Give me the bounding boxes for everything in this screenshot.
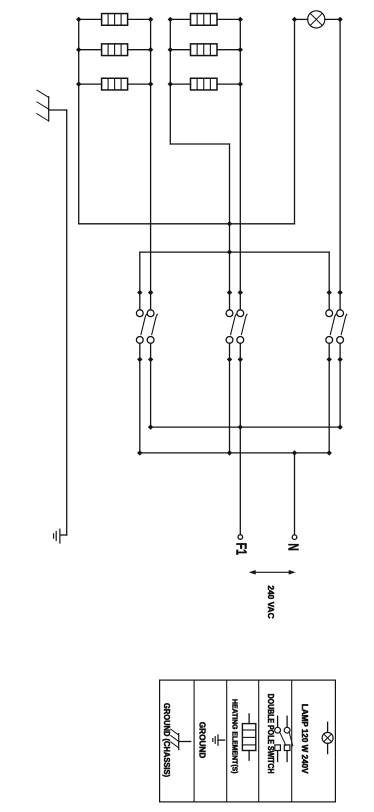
wire: neutral N from bus 2 to terminal <box>294 453 296 535</box>
dimension arrow: 240 VAC between N and F1 <box>249 570 296 575</box>
node: bus 1 bottom junction <box>148 424 153 429</box>
svg-text:N: N <box>284 543 301 550</box>
svg-text:F1: F1 <box>233 543 250 556</box>
node: lamp top junction <box>337 17 342 22</box>
terminal F1 (hot supply) <box>238 535 243 540</box>
upper bank heating element E6 <box>170 78 240 90</box>
double-pole switch S2 (upper element bank) <box>226 310 247 343</box>
double-pole switch S1 (lower element bank) <box>136 310 157 343</box>
ground (chassis) symbol at heater frame <box>37 90 67 121</box>
node: element E2 top junction <box>148 47 153 52</box>
lower bank heating element E2 <box>79 44 151 56</box>
node: element E1 bottom junction <box>76 17 81 22</box>
wire: switch S2 bottom pole to bus 2 <box>229 343 231 453</box>
node: double-pole switch S1 lead junctions <box>137 290 153 362</box>
wire: upper bank bottom rail riser <box>170 143 229 145</box>
wire: lower bank top rail to switch S1 top pole <box>150 19 152 309</box>
node: element E6 bottom junction <box>168 81 173 86</box>
node: element E4 bottom junction <box>168 17 173 22</box>
node: element E3 top junction <box>148 81 153 86</box>
svg-text:LAMP 120 W 240V: LAMP 120 W 240V <box>300 704 309 774</box>
upper bank heating element E5 <box>170 44 240 56</box>
wire: upper bank bottom rail <box>169 19 171 144</box>
svg-text:GROUND (CHASSIS): GROUND (CHASSIS) <box>162 703 171 777</box>
node: element E5 top junction <box>238 47 243 52</box>
svg-text:HEATING ELEMENT(S): HEATING ELEMENT(S) <box>231 699 240 774</box>
wire: switch S2 top pole across bus 1 to terminal F1 <box>239 343 241 534</box>
upper bank heating element E4 <box>170 14 240 26</box>
node: riser junction with switch S2 bottom pole line <box>227 221 232 226</box>
node: double-pole switch S3 lead junctions <box>327 290 343 362</box>
node: riser junction with switch S2 bottom pole line <box>227 249 232 254</box>
legend symbol: double pole switch <box>275 716 293 761</box>
wire: lamp top line to switch S3 top pole <box>339 19 341 309</box>
node: element E2 bottom junction <box>76 47 81 52</box>
svg-text:DOUBLE POLE SWITCH: DOUBLE POLE SWITCH <box>266 694 275 774</box>
wire: vertical riser joining lamp bottom line and lower bank bottom rail <box>79 223 295 225</box>
double-pole switch S3 (lamp/top circuit) <box>326 310 347 343</box>
node: bus 2 junction with switch S2 bottom pole line <box>227 450 232 455</box>
wire: bus 2 (neutral side vertical bus) <box>140 452 329 454</box>
legend symbol: heating element <box>242 714 255 760</box>
legend frame <box>160 680 336 802</box>
node: element E1 top junction <box>148 17 153 22</box>
wire: vertical riser joining S3 and S1 bottom pole lines <box>140 251 329 253</box>
wire: common riser to switch S1 bottom pole <box>139 252 141 310</box>
wire: riser to switch S2 bottom pole <box>229 144 231 310</box>
node: bus 1 top junction <box>337 424 342 429</box>
wire: switch S1 bottom pole to bus 2 <box>139 343 141 453</box>
wire: switch S1 top pole to bus 1 <box>150 343 152 427</box>
wire: hot line (upper bank top rail) to switch S2 top pole <box>239 19 241 309</box>
legend symbol: lamp <box>322 722 333 753</box>
wire: switch S3 bottom pole to bus 2 <box>328 343 330 453</box>
lower bank heating element E1 <box>79 14 151 26</box>
node: bus 1 junction with F1 hot line <box>238 424 243 429</box>
node: element E6 top junction <box>238 81 243 86</box>
lower bank heating element E3 <box>79 78 151 90</box>
wire: ground run <box>61 110 67 535</box>
ground (earth) symbol at supply end <box>54 529 60 543</box>
wire: common riser to switch S3 bottom pole <box>328 252 330 310</box>
wire: switch S3 top pole to bus 1 <box>339 343 341 427</box>
legend symbol: ground (chassis) <box>171 729 191 749</box>
node: element E5 bottom junction <box>168 47 173 52</box>
node: element E4 top junction <box>238 17 243 22</box>
svg-text:240 VAC: 240 VAC <box>266 585 276 618</box>
lamp LP1 (120 W 240 V indicator) <box>295 11 341 28</box>
wire: lamp bottom line to vertical riser <box>294 19 296 223</box>
node: bus 2 junction with neutral N line <box>292 450 297 455</box>
terminal N (neutral supply) <box>292 535 297 540</box>
legend symbol: ground (earth) <box>213 735 225 745</box>
node: bus 2 top junction <box>327 450 332 455</box>
node: lamp bottom junction <box>292 17 297 22</box>
node: bus 2 bottom junction <box>137 450 142 455</box>
node: double-pole switch S2 lead junctions <box>227 290 243 362</box>
wire: lower bank bottom rail <box>78 19 80 223</box>
node: element E3 bottom junction <box>76 81 81 86</box>
svg-text:GROUND: GROUND <box>197 722 206 759</box>
wire: bus 1 (hot side vertical bus) <box>151 426 341 428</box>
